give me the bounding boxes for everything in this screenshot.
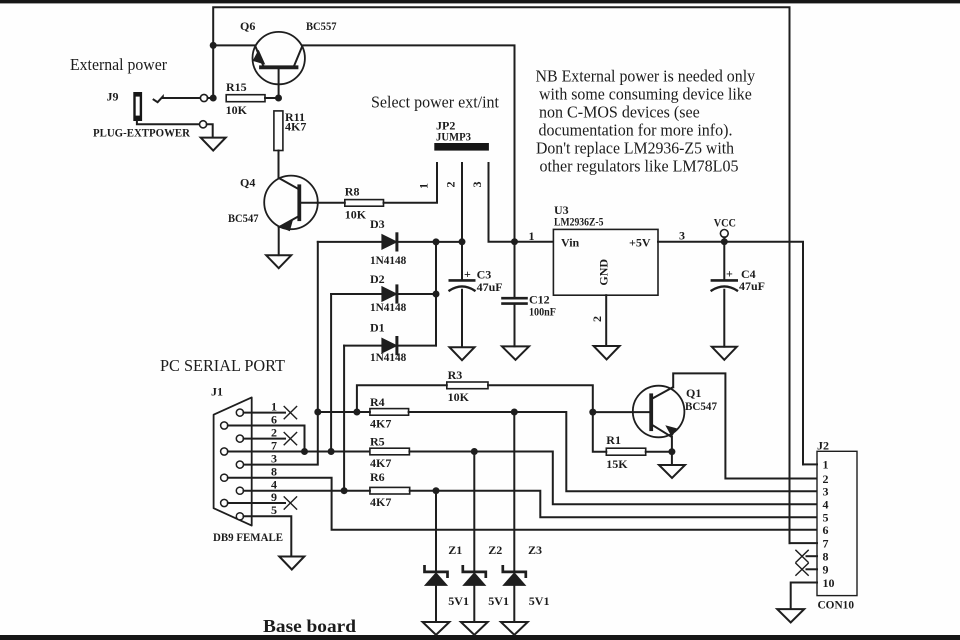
svg-text:Z1: Z1 <box>448 543 462 557</box>
svg-text:15K: 15K <box>606 457 628 471</box>
svg-text:5V1: 5V1 <box>448 594 469 608</box>
svg-text:4K7: 4K7 <box>370 495 391 509</box>
pin circle DB9 pin 4 <box>236 487 243 494</box>
wire DB9 pin 9 stub <box>228 502 285 504</box>
svg-text:6: 6 <box>823 523 829 537</box>
svg-text:1N4148: 1N4148 <box>370 253 406 267</box>
zener diode Z3 <box>503 412 526 622</box>
wire Q1 collector to J2 pin 2 <box>673 373 817 478</box>
svg-text:Select power ext/int: Select power ext/int <box>371 93 499 112</box>
pin circle DB9 pin 1 <box>236 409 243 416</box>
svg-text:3: 3 <box>679 228 685 242</box>
svg-text:R1: R1 <box>606 433 621 447</box>
svg-text:6: 6 <box>271 412 277 426</box>
node junction at (356.9,412) <box>353 409 360 416</box>
power symbol VCC <box>720 230 728 242</box>
diode D3 <box>382 234 397 250</box>
svg-text:R5: R5 <box>370 434 385 448</box>
wire Q6 emitter row left segment <box>213 44 255 46</box>
svg-text:10K: 10K <box>226 103 248 117</box>
no-connect X on J2 pin 9 <box>796 563 808 575</box>
svg-text:4: 4 <box>823 498 829 512</box>
svg-text:R6: R6 <box>370 470 385 484</box>
svg-text:Don't replace LM2936-Z5 with: Don't replace LM2936-Z5 with <box>536 139 734 158</box>
node junction at (514.3,412) <box>511 409 518 416</box>
capacitor C12 <box>503 242 527 347</box>
node junction at (436,294) <box>433 291 440 298</box>
svg-text:GND: GND <box>597 259 611 286</box>
diode D2 <box>382 286 397 302</box>
wire R1 left from base node <box>593 412 607 452</box>
ground at Q4 emitter <box>266 255 291 268</box>
svg-text:other regulators like LM78L05: other regulators like LM78L05 <box>540 157 739 176</box>
wire J9 tip to node <box>208 97 214 99</box>
svg-text:Q1: Q1 <box>686 386 701 400</box>
transistor Q4 <box>264 176 318 232</box>
wire DB9 pin 5 to ground <box>244 516 292 556</box>
svg-text:DB9 FEMALE: DB9 FEMALE <box>213 530 283 544</box>
svg-text:47uF: 47uF <box>739 279 765 293</box>
wire R3 left to R4 node <box>357 385 447 412</box>
ground at C12 <box>502 346 529 359</box>
wire R8 to JP2 pin 1 <box>384 163 438 203</box>
resistor R11 <box>274 111 283 151</box>
connector J9 sleeve contact <box>137 121 200 125</box>
svg-text:1N4148: 1N4148 <box>370 350 406 364</box>
svg-text:5V1: 5V1 <box>488 594 509 608</box>
diode D1 <box>382 338 397 354</box>
svg-text:8: 8 <box>823 550 829 564</box>
svg-text:J9: J9 <box>107 90 119 104</box>
scan border bar bottom <box>0 635 960 640</box>
node junction at (213,98) <box>210 95 217 102</box>
no-connect X on pin 9 <box>284 497 296 509</box>
svg-text:NB External power is needed on: NB External power is needed only <box>536 66 756 85</box>
node junction at (474.3,451.5) <box>471 448 478 455</box>
wire R11 to Q4 collector <box>278 151 280 179</box>
svg-text:7: 7 <box>823 536 829 550</box>
ground at C3 <box>450 347 475 360</box>
wire R5 right to J2 pin 4 <box>409 452 817 505</box>
jumper JP2 bar <box>434 143 489 151</box>
svg-text:10K: 10K <box>345 207 367 221</box>
svg-text:7: 7 <box>271 438 277 452</box>
no-connect X on J2 pin 8 <box>796 550 808 562</box>
node junction at (514.5,241.7) <box>511 238 518 245</box>
pin circle DB9 pin 2 <box>236 435 243 442</box>
wire Q4 collector to R8 <box>317 202 345 204</box>
wire J2 pin 8 stub <box>807 555 818 557</box>
resistor R1 <box>606 448 645 455</box>
wire U3 pin 3 output to VCC and J2 pin 1 riser <box>658 242 803 465</box>
wire D2 anode left <box>331 293 382 295</box>
node junction at (436,490.7) <box>433 487 440 494</box>
wire R1 right to Q1 emitter <box>646 451 672 453</box>
pin circle DB9 pin 6 <box>221 422 228 429</box>
node junction at VCC (724.3,241.7) <box>721 238 728 245</box>
resistor R6 <box>370 487 410 494</box>
wire D3 cathode to JP2 pin2 node <box>398 241 462 243</box>
svg-text:47uF: 47uF <box>477 280 503 294</box>
svg-text:Q4: Q4 <box>240 176 255 190</box>
transistor Q1 <box>593 386 685 438</box>
svg-text:Z3: Z3 <box>528 543 542 557</box>
zener diode Z2 <box>463 452 486 622</box>
svg-text:4K7: 4K7 <box>370 456 391 470</box>
svg-text:9: 9 <box>271 490 277 504</box>
resistor R3 <box>447 382 488 389</box>
svg-text:documentation for more info).: documentation for more info). <box>539 121 733 140</box>
wire JP2 pin 2 <box>461 163 463 242</box>
wire J2 pin 7 stub <box>790 542 818 544</box>
svg-text:JUMP3: JUMP3 <box>436 129 471 143</box>
svg-text:VCC: VCC <box>714 215 736 229</box>
svg-text:1: 1 <box>417 183 431 189</box>
svg-text:BC547: BC547 <box>228 211 259 225</box>
svg-text:+5V: +5V <box>629 236 651 250</box>
wire J2 pin 1 stub <box>803 463 817 465</box>
svg-text:3: 3 <box>470 182 484 188</box>
svg-text:R15: R15 <box>226 80 247 94</box>
wire R4 right to J2 pin 3 <box>409 412 817 491</box>
capacitor C3 <box>450 242 475 347</box>
svg-text:Base board: Base board <box>263 616 356 636</box>
pin circle DB9 pin 3 <box>236 461 243 468</box>
svg-text:+: + <box>464 267 471 281</box>
no-connect X on pin 1 <box>284 407 296 419</box>
svg-text:PLUG-EXTPOWER: PLUG-EXTPOWER <box>93 126 190 140</box>
capacitor C4 <box>712 242 737 347</box>
svg-text:Q6: Q6 <box>240 19 255 33</box>
svg-text:with some consuming device lik: with some consuming device like <box>539 84 752 103</box>
svg-text:9: 9 <box>823 563 829 577</box>
svg-text:2: 2 <box>271 425 277 439</box>
svg-text:10: 10 <box>823 576 835 590</box>
ground at J2 pin 10 <box>777 609 804 622</box>
svg-text:8: 8 <box>271 464 277 478</box>
svg-text:R3: R3 <box>448 368 463 382</box>
svg-text:1: 1 <box>529 229 535 243</box>
svg-text:D2: D2 <box>370 272 385 286</box>
wire D1 cathode to bus <box>398 345 436 347</box>
svg-text:BC557: BC557 <box>306 19 337 33</box>
node junction at (436,241.9) <box>433 238 440 245</box>
svg-text:1N4148: 1N4148 <box>370 300 406 314</box>
svg-text:R8: R8 <box>345 184 360 198</box>
ground at DB9 pin 5 <box>279 557 304 570</box>
wire D1 anode riser to R6 row <box>343 346 345 491</box>
regulator U3 body <box>553 229 658 295</box>
ground at Q1 emitter <box>659 465 685 478</box>
svg-text:3: 3 <box>271 451 277 465</box>
node junction at (213,45) <box>210 42 217 49</box>
node junction at (671.9,451.7) <box>668 448 675 455</box>
svg-text:CON10: CON10 <box>818 598 855 612</box>
node junction at (592.8,412.1) <box>589 409 596 416</box>
node junction at (331.1,451.5) <box>328 448 335 455</box>
node junction at (344.1,490.7) <box>341 487 348 494</box>
svg-text:2: 2 <box>444 182 458 188</box>
pin circle DB9 pin 8 <box>221 474 228 481</box>
ground at Z2 <box>461 622 488 635</box>
wire Q6 collector row to regulator input riser <box>302 45 514 241</box>
wire J9 sleeve to ground <box>207 124 213 137</box>
pin open circle J9 sleeve <box>200 121 207 128</box>
wire J2 pin 9 stub <box>807 568 818 570</box>
wire DB9 pin 8 to J2 pin 6 row <box>228 478 817 530</box>
zener diode Z1 <box>425 491 448 622</box>
wire JP2 pin 3 to U3 Vin <box>489 163 554 242</box>
wire DB9 pin 2 stub <box>244 438 286 440</box>
resistor R8 <box>345 200 384 207</box>
svg-text:Vin: Vin <box>561 236 580 250</box>
scan border bar top <box>0 0 960 3</box>
resistor R15 <box>226 95 265 102</box>
wire U3 GND pin 2 <box>605 295 607 346</box>
svg-text:5: 5 <box>271 503 277 517</box>
wire DB9 pin 1 stub <box>244 412 286 414</box>
svg-text:+: + <box>726 267 733 281</box>
node junction at (317.8,412) <box>314 409 321 416</box>
svg-text:J1: J1 <box>211 384 223 398</box>
svg-text:1: 1 <box>823 458 829 472</box>
connector J9 tip contact <box>154 97 201 103</box>
svg-text:D3: D3 <box>370 217 385 231</box>
transistor Q6 <box>253 32 305 98</box>
wire R6 row left from DB9 pin 4 <box>244 490 370 492</box>
connector J9 jack body <box>133 92 142 121</box>
svg-text:External power: External power <box>70 55 167 74</box>
connector J2 body <box>817 451 857 595</box>
wire R15 right to base node <box>265 97 279 99</box>
ground at U3 <box>594 346 620 359</box>
wire R3 right to Q1 base node <box>488 385 593 412</box>
node junction at (462,241.8) <box>459 238 466 245</box>
no-connect X on pin 2 <box>284 433 296 445</box>
wire D3 anode riser to serial pin 3 <box>244 242 318 465</box>
resistor R4 <box>370 409 409 416</box>
wire top rail from external power node to J2 pin 7 riser <box>213 7 789 543</box>
svg-text:R4: R4 <box>370 395 385 409</box>
svg-text:LM2936Z-5: LM2936Z-5 <box>554 214 604 228</box>
svg-text:100nF: 100nF <box>529 304 556 318</box>
ground at C4 <box>712 347 737 360</box>
pin circle DB9 pin 9 <box>221 499 228 506</box>
svg-text:5V1: 5V1 <box>529 594 550 608</box>
svg-text:Z2: Z2 <box>488 543 502 557</box>
svg-text:D1: D1 <box>370 321 385 335</box>
wire R6 right to J2 pin 5 <box>410 491 817 518</box>
wire DB9 pin 6 to pin 7 row <box>228 426 305 452</box>
svg-text:1: 1 <box>271 399 277 413</box>
svg-text:J2: J2 <box>817 439 829 453</box>
svg-text:4K7: 4K7 <box>285 120 306 134</box>
connector J1 DB9 body <box>214 397 252 525</box>
wire Q4 emitter to ground <box>278 228 280 256</box>
svg-text:2: 2 <box>590 316 604 322</box>
wire D3 anode left <box>318 241 382 243</box>
pin circle DB9 pin 7 <box>221 448 228 455</box>
ground at Z3 <box>501 622 528 635</box>
svg-text:3: 3 <box>823 485 829 499</box>
pin open circle J9 tip <box>200 94 207 101</box>
resistor R5 <box>370 448 410 455</box>
ground at J9 sleeve <box>201 138 226 151</box>
node junction at (304.5,451.5) <box>301 448 308 455</box>
wire D1 anode left <box>344 345 382 347</box>
node junction at (278.5,98) <box>275 95 282 102</box>
wire D2 anode riser to R5 row <box>330 294 332 452</box>
wire J2 pin 10 to ground <box>791 583 817 609</box>
svg-text:10K: 10K <box>448 390 470 404</box>
wire Q1 emitter to ground <box>671 437 673 465</box>
svg-text:4K7: 4K7 <box>370 416 391 430</box>
pin circle DB9 pin 5 <box>236 513 243 520</box>
ground at Z1 <box>423 622 450 635</box>
svg-text:PC SERIAL PORT: PC SERIAL PORT <box>160 356 286 375</box>
svg-text:BC547: BC547 <box>685 399 717 413</box>
wire R4 row left <box>318 411 370 413</box>
wire DB9 pin 7 to R5 <box>228 451 370 453</box>
wire D2 cathode to bus <box>398 293 436 295</box>
svg-text:non C-MOS devices (see: non C-MOS devices (see <box>539 103 700 122</box>
wire diode cathode bus <box>435 242 437 346</box>
